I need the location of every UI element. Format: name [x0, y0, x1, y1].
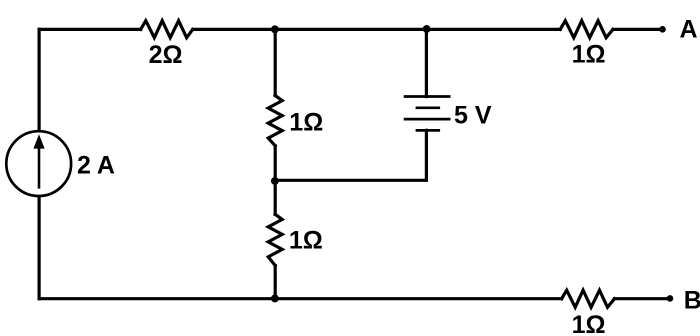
svg-text:1Ω: 1Ω [289, 109, 323, 137]
battery plate long lower [404, 118, 451, 121]
svg-text:2Ω: 2Ω [149, 41, 183, 69]
wire middle branch upper [274, 29, 277, 95]
wire between middle resistors [274, 146, 277, 215]
svg-text:5 V: 5 V [454, 101, 492, 129]
current source I1 arrow shaft [38, 148, 41, 189]
svg-text:1Ω: 1Ω [572, 311, 606, 336]
svg-text:B: B [684, 286, 700, 314]
node dot middle junction [271, 177, 279, 185]
battery plate short bottom [416, 129, 441, 132]
svg-text:A: A [680, 16, 698, 44]
resistor R3 1ohm vertical zigzag [268, 96, 282, 146]
resistor R1 2ohm zigzag [141, 21, 193, 38]
resistor R4 1ohm vertical zigzag [268, 214, 282, 265]
svg-text:2 A: 2 A [77, 152, 115, 180]
wire bottom horizontal [39, 297, 562, 300]
node dot top middle junction [271, 25, 279, 33]
terminal A dot [659, 26, 666, 33]
battery V1 plates [404, 97, 451, 131]
current source I1 arrowhead [33, 134, 44, 148]
wire battery top [425, 29, 428, 96]
node dot top battery junction [423, 25, 431, 33]
wire top-left horizontal [39, 28, 141, 31]
terminal B dot [667, 295, 674, 302]
current source I1 circle [6, 131, 71, 196]
wire left vertical lower [37, 196, 40, 299]
battery plate short upper [416, 106, 441, 109]
battery plate long top [404, 95, 451, 98]
svg-text:1Ω: 1Ω [572, 40, 606, 68]
resistor R5 1ohm zigzag bottom-right [562, 290, 615, 307]
resistor R2 1ohm zigzag top-right [560, 21, 613, 38]
wire to terminal B [614, 297, 670, 300]
wire middle branch lower [274, 266, 277, 299]
svg-text:1Ω: 1Ω [289, 226, 323, 254]
wire top middle [193, 28, 560, 31]
wire battery bottom to node [275, 130, 426, 180]
wire to terminal A [613, 28, 663, 31]
node dot bottom junction [271, 294, 279, 302]
wire left vertical upper [37, 29, 40, 131]
